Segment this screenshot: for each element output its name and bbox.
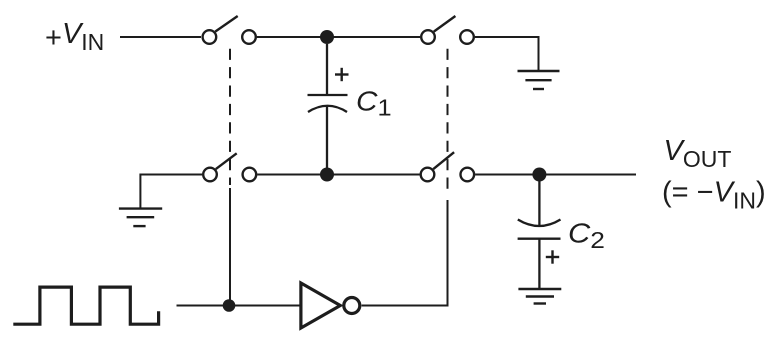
control line left dashed [229, 49, 231, 185]
wire S1 to S2 [257, 36, 420, 38]
clock waveform [13, 287, 158, 324]
control line right dashed [447, 49, 449, 191]
control line left solid [229, 188, 231, 306]
switch S2 [421, 16, 474, 44]
svg-text:C1: C1 [356, 86, 392, 121]
wire ground G2 to switch S3 [140, 175, 202, 209]
C2 plus sign [546, 250, 559, 263]
switch S4 [421, 152, 474, 181]
inverter U1 [301, 283, 360, 328]
svg-text:VOUT: VOUT [664, 135, 732, 172]
junction dot C2 top [532, 168, 546, 182]
switch S1 [203, 16, 256, 44]
ground G3 [518, 289, 561, 304]
wire S2 to ground G1 [475, 37, 539, 71]
C1 plus sign [335, 68, 349, 81]
capacitor C2 [518, 181, 561, 289]
svg-text:+VIN: +VIN [45, 18, 104, 55]
capacitor C1 [308, 44, 348, 174]
junction dot clock node [223, 299, 236, 312]
wire S3 to S4 [257, 174, 420, 176]
wire S4 to output [475, 174, 636, 176]
wire inverter output to S4 control [362, 200, 448, 306]
switch S3 [203, 153, 256, 181]
ground G2 [119, 209, 162, 227]
wire clock to inverter [177, 305, 301, 307]
ground G1 [518, 71, 560, 89]
junction dot C1 top [320, 30, 334, 44]
svg-text:C2: C2 [568, 219, 605, 253]
wire +VIN to switch S1 [120, 36, 201, 38]
junction dot C1 bottom [320, 168, 334, 182]
svg-text:(= −VIN): (= −VIN) [662, 177, 766, 214]
